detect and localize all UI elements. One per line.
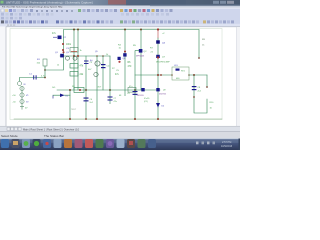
resistor R8 box (52, 86, 102, 93)
svg-text:MODIFIED AMP: MODIFIED AMP (156, 60, 170, 63)
capacitor C2 electrolytic (52, 33, 67, 39)
wire base link (45, 69, 63, 71)
capacitor C1 input (29, 74, 46, 80)
tray (196, 142, 199, 145)
wire output link (135, 74, 172, 76)
transistor Q4 power (150, 40, 166, 53)
title bar glass (0, 0, 240, 6)
wire Q3 collector (96, 56, 98, 119)
svg-text:1k: 1k (57, 65, 59, 67)
transistor Q7 driver (156, 55, 166, 59)
menu bar (0, 6, 240, 9)
node ground rail dots (69, 118, 71, 120)
battery V1 (12, 93, 29, 97)
wire Q4 chain (157, 38, 159, 119)
capacitor C9 (127, 91, 138, 95)
node R10 dot (206, 86, 208, 88)
transistor Q5 circle (88, 61, 100, 77)
wire R8 to rail (69, 90, 71, 119)
wire box to load (189, 74, 207, 76)
wire C8 branch (194, 75, 207, 113)
toolbar icons row 3 (1, 17, 22, 20)
svg-text:File View Edit Tools Design Gr: File View Edit Tools Design Graph Debug … (2, 6, 63, 9)
battery V2 (13, 99, 30, 103)
wire first stage bus (60, 55, 110, 57)
generator input source (17, 81, 26, 86)
wire mid bus (57, 89, 160, 91)
node input junctions (62, 43, 64, 45)
capacitor C7 (108, 90, 117, 104)
potentiometer RV1 box (172, 65, 189, 80)
transistor Q1 (55, 51, 65, 66)
svg-text:47u: 47u (114, 101, 117, 103)
capacitor C4 (101, 64, 110, 68)
svg-text:MPSA06: MPSA06 (136, 55, 145, 58)
toolbar icons row 4 (1, 20, 234, 23)
status bar (0, 132, 240, 139)
wire R2 drop (77, 30, 79, 91)
wire R10 top (206, 75, 208, 87)
diode D1 (53, 94, 69, 99)
svg-text:IC=55: IC=55 (144, 98, 150, 100)
sheet border (10, 29, 222, 120)
svg-text:2N3055: 2N3055 (137, 95, 145, 97)
resistor R9 labels (202, 39, 206, 47)
svg-text:47u: 47u (129, 86, 132, 88)
node VCC end dot (198, 57, 200, 59)
transistor Q3 pair circles (66, 52, 78, 60)
capacitor C3 on x86 (84, 61, 93, 65)
junction dots on VCC rail (73, 29, 75, 31)
svg-text:2:57 PM: 2:57 PM (222, 141, 231, 144)
wire R6 drop (124, 30, 126, 91)
svg-text:UNTITLED - ISIS Professional (: UNTITLED - ISIS Professional (Animating)… (6, 0, 93, 4)
wire x125 stub (119, 90, 125, 97)
resistor R2 (70, 48, 83, 53)
svg-text:100n: 100n (66, 44, 72, 46)
text C3 label (66, 44, 72, 50)
wire C9 to rail (134, 90, 136, 119)
svg-text:TEXT: TEXT (71, 109, 77, 111)
svg-text:(C1): (C1) (144, 101, 148, 103)
resistor R1 (37, 59, 48, 66)
wire VCC top rail (64, 30, 200, 71)
capacitor C8 (192, 86, 202, 93)
transistor Q6 (118, 57, 127, 63)
transistor Q9 output (144, 88, 167, 103)
svg-text:10/9/2013: 10/9/2013 (221, 145, 233, 148)
diode D2 (156, 103, 165, 108)
wire C4 branch (102, 56, 104, 90)
wire ground rail (14, 118, 222, 120)
resistor R10 labels (210, 102, 215, 110)
wire D1 link (53, 94, 70, 96)
svg-text:Main | Root Sheet 1 | Root She: Main | Root Sheet 1 | Root Sheet 2 | Ove… (23, 128, 80, 131)
wire Q4 drop (selected red) (157, 30, 159, 39)
resistor R6 labels (115, 45, 132, 77)
text spare labels (90, 51, 115, 70)
window buttons (213, 1, 219, 4)
wire input node (20, 78, 46, 82)
resistor R12 on bus (128, 86, 136, 92)
canvas corner marks (7, 24, 15, 26)
toolbar icons row 2 (1, 13, 169, 16)
node C8 dot (193, 96, 195, 98)
wire Q2 drop (140, 30, 142, 91)
node output dots (157, 74, 159, 76)
resistor R4 (70, 64, 84, 69)
node mid bus dots (69, 89, 71, 91)
node first stage dots (73, 55, 75, 57)
svg-text:(b): (b) (90, 60, 93, 62)
toolbar background (0, 8, 240, 26)
svg-text:Select Mode: Select Mode (1, 134, 18, 138)
transistor Q2 (133, 45, 147, 90)
battery V0 (20, 86, 24, 90)
ground symbol (20, 107, 28, 110)
wire C6 branch (85, 56, 87, 119)
toolbar icons row 1 (1, 9, 173, 12)
wire R1 drop (73, 30, 75, 91)
svg-text:MJ2955: MJ2955 (159, 94, 167, 96)
capacitor C6 (71, 98, 94, 112)
svg-text:The Status Bar: The Status Bar (44, 134, 64, 138)
transistor Q8 output (137, 88, 145, 97)
wire stage out (109, 56, 111, 90)
wire R3 vertical (44, 66, 46, 78)
svg-text:1k: 1k (106, 54, 108, 56)
resistor R5 (70, 72, 84, 77)
wire supply stack (21, 86, 23, 106)
tab row (0, 126, 240, 132)
